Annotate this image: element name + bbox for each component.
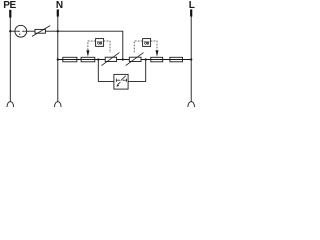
wire N to centre riser (top line) [58,31,123,59]
wire parallel branch right drop [128,60,146,82]
terminal arrow PE [9,10,11,18]
U1 lightning arrow [121,76,126,81]
fuse F5 [170,57,183,62]
arrow onto F3 [86,50,89,57]
wire R1 to N [45,30,57,32]
K1 dashed link to varistor R2 [104,41,110,53]
K1 symbol [97,41,103,43]
connector fork N [55,102,62,107]
fuse F2 [63,57,77,62]
F1 right electrode arrow [24,30,27,32]
label N [56,1,63,11]
indicator K1 (box) [96,39,104,47]
K1 dashed link to fuse F3 [88,41,96,50]
node N bus junction [57,58,59,60]
terminal arrow N [57,9,59,16]
K2 dashed link to fuse F4 [151,41,157,50]
wire F1 to varistor R1 [27,30,35,32]
varistor R3 [129,57,141,61]
gas discharge tube F1 (circle) [15,25,27,37]
fuse F3 [81,57,95,62]
arrow onto F4 [156,50,159,57]
label PE [3,1,16,11]
node L bus junction [190,58,192,60]
connector fork L [188,102,195,107]
indicator K2 (box) [143,39,151,47]
wire L vertical [190,16,192,102]
bus wire N to L [58,59,191,61]
surge arrester U1 (box) [114,74,128,89]
K2 dashed link to varistor R3 [134,41,142,53]
node PE branch junction [9,30,11,32]
connector fork PE [7,102,14,107]
node A junction [97,58,99,60]
fuse F4 [151,57,163,62]
varistor R1 (PE-N branch) [35,29,45,33]
node B junction [145,58,147,60]
label L [189,1,195,11]
varistor R2 [105,57,116,61]
wire N vertical [57,16,59,102]
wire PE to gas discharge tube [10,30,15,32]
node N top junction [57,30,59,32]
F1 left electrode arrow [15,30,19,32]
node centre junction [122,58,124,60]
wire PE vertical [9,17,11,102]
K2 symbol [144,41,150,43]
F1 gas dot [19,33,20,34]
terminal arrow L [190,9,192,16]
U1 spark gap electrodes [115,79,117,82]
wire parallel branch left drop [98,60,114,82]
